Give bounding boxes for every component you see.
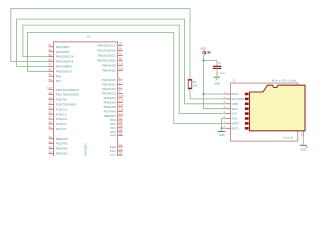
svg-text:0.1uF: 0.1uF (216, 71, 225, 75)
svg-text:PD2/TDI: PD2/TDI (56, 98, 67, 102)
node card pad DAT1 (245, 127, 249, 130)
svg-text:56: 56 (48, 58, 51, 62)
node card pad DAT3/CD (245, 98, 249, 101)
svg-text:45: 45 (119, 132, 122, 136)
wire card pin 8 stub (226, 127, 231, 129)
svg-text:PE1/AN1: PE1/AN1 (56, 142, 68, 146)
wire pin 1 stub right (118, 79, 123, 81)
wire pin 54 stub left (49, 51, 54, 53)
svg-text:126: 126 (119, 99, 124, 103)
svg-text:45: 45 (48, 73, 51, 77)
svg-text:3.3v: 3.3v (205, 50, 211, 54)
svg-text:GND: GND (214, 82, 220, 86)
wire pin 127 stub right (118, 106, 123, 108)
node card pad DAT0 (245, 122, 249, 125)
wire pin 125 stub right (118, 97, 123, 99)
wire pin 18 stub right (118, 150, 123, 152)
svg-text:GND: GND (219, 133, 225, 137)
svg-text:25: 25 (48, 101, 51, 105)
wire pin 15 stub left (49, 138, 54, 140)
svg-text:26: 26 (48, 120, 51, 124)
wire pin 27 stub left (49, 118, 54, 120)
svg-text:122: 122 (119, 112, 124, 116)
svg-text:18: 18 (119, 147, 122, 151)
wire pin 120 stub right (118, 69, 123, 71)
svg-text:DAT3/CD: DAT3/CD (232, 97, 244, 101)
wire net SSI0CLK -> card CLK pin 5 (23, 25, 226, 114)
svg-text:PA7: PA7 (56, 79, 62, 83)
svg-text:PA5/SSI0TX: PA5/SSI0TX (56, 69, 72, 73)
node J1 socket outline (231, 83, 298, 141)
wire pin 44 stub left (49, 80, 54, 82)
svg-text:U1: U1 (87, 35, 91, 39)
svg-text:42: 42 (119, 120, 122, 124)
wire pin 126 stub right (118, 101, 123, 103)
ground GND2 (221, 128, 223, 131)
svg-text:VDD: VDD (232, 107, 238, 111)
wire card VSS pin 6 to ground (222, 119, 226, 129)
svg-text:53: 53 (48, 43, 51, 47)
svg-text:C7: C7 (218, 61, 222, 65)
svg-text:10k: 10k (193, 83, 198, 87)
wire pin 11 stub left (49, 157, 54, 159)
wire VDD rail down to card VDD pin 4 (204, 56, 226, 109)
svg-text:PB0/SSI1CLK: PB0/SSI1CLK (98, 44, 116, 48)
svg-text:120: 120 (119, 67, 124, 71)
wire pin 45 stub left (49, 75, 54, 77)
svg-text:125: 125 (119, 94, 124, 98)
svg-text:PD0/AN15: PD0/AN15 (102, 78, 116, 82)
wire card pin 2 stub (226, 98, 231, 100)
wire card pin 1 stub (226, 93, 231, 95)
svg-text:DAT1: DAT1 (232, 126, 240, 130)
wire pin 22 stub left (49, 108, 54, 110)
node card pad DAT2 (245, 93, 249, 96)
svg-text:PG7: PG7 (110, 153, 116, 156)
wire net SSI0FSS (CS, via R1): IC pin 56 -> resistor -> card DAT3 (11, 9, 190, 80)
svg-text:PC6/C2-: PC6/C2- (56, 122, 67, 126)
wire pin 121 stub right (118, 64, 123, 66)
wire pin 45 stub right (118, 135, 123, 137)
svg-text:127: 127 (119, 103, 124, 107)
wire pin 53 stub left (49, 46, 54, 48)
wire branch to capacitor (204, 60, 218, 65)
svg-text:PE2/AN2: PE2/AN2 (56, 147, 68, 151)
svg-text:Micro-SD-Card: Micro-SD-Card (272, 78, 297, 82)
wire pin 43 stub right (118, 127, 123, 129)
wire pin 19 stub right (118, 146, 123, 148)
svg-text:58: 58 (48, 68, 51, 72)
svg-text:DAT2: DAT2 (232, 92, 240, 96)
svg-text:128: 128 (119, 108, 124, 112)
svg-text:27: 27 (48, 115, 51, 119)
wire card pin 7 stub (226, 122, 231, 124)
wire card DAT1 pin 8 joins (222, 127, 226, 129)
svg-text:PD3/AN12: PD3/AN12 (102, 92, 116, 96)
wire pin 21 stub left (49, 128, 54, 130)
svg-text:55: 55 (48, 53, 51, 57)
svg-text:PD1/AN14: PD1/AN14 (102, 83, 116, 87)
svg-text:41: 41 (119, 116, 122, 120)
ground GND1 below capacitor (214, 76, 220, 78)
wire net CS from resistor bottom to card pin 2 (190, 89, 226, 99)
IC U1 microcontroller body (54, 42, 118, 160)
svg-text:54: 54 (48, 48, 51, 52)
svg-text:PD5/AN6: PD5/AN6 (104, 101, 116, 105)
wire card pin 5 stub (226, 113, 231, 115)
wire pin 96 stub right (118, 49, 123, 51)
ground GND3 (300, 144, 307, 146)
wire pin 92 stub right (118, 59, 123, 61)
svg-text:12: 12 (48, 150, 51, 154)
svg-text:PA2/SSI0CLK: PA2/SSI0CLK (56, 55, 74, 59)
svg-text:PD1/TMS/SWDIO: PD1/TMS/SWDIO (56, 93, 80, 97)
svg-text:20: 20 (48, 91, 51, 95)
svg-text:VSS: VSS (232, 117, 238, 121)
wire pin 91 stub right (118, 54, 123, 56)
wire pin 128 stub right (118, 110, 123, 112)
wire pin 20 stub left (49, 94, 54, 96)
svg-text:LM3S6965: LM3S6965 (83, 144, 87, 157)
svg-text:PF4: PF4 (110, 134, 116, 138)
svg-text:PE0/AN0: PE0/AN0 (56, 137, 68, 141)
svg-text:36: 36 (119, 152, 122, 156)
svg-text:PC7/C0-: PC7/C0- (56, 127, 67, 131)
svg-text:95: 95 (119, 42, 122, 46)
wire pin 13 stub left (49, 148, 54, 150)
svg-text:PA6: PA6 (56, 74, 62, 78)
node card pad CMD (245, 103, 249, 106)
wire pin 110 stub left (49, 89, 54, 91)
wire card pin 9 stub (card detect) (302, 131, 304, 136)
junction dot VDD/DAT2 (202, 93, 204, 95)
node card pad VDD (245, 107, 249, 110)
svg-text:96: 96 (119, 47, 122, 51)
svg-text:PA0/U0RX: PA0/U0RX (56, 45, 70, 49)
svg-text:PD0/TCK/SWCLK: PD0/TCK/SWCLK (56, 88, 79, 92)
svg-text:PB2/I2C0SCL: PB2/I2C0SCL (98, 54, 116, 58)
wire pin 2 stub right (118, 83, 123, 85)
svg-text:21: 21 (48, 125, 51, 129)
svg-text:PD6/AN5: PD6/AN5 (104, 105, 116, 109)
wire pin 56 stub left (49, 61, 54, 63)
wire pin 12 stub left (49, 152, 54, 154)
svg-text:PD2/AN13: PD2/AN13 (102, 87, 116, 91)
node card body (yellow) (250, 85, 306, 131)
svg-text:29: 29 (48, 96, 51, 100)
svg-text:44: 44 (48, 77, 51, 81)
svg-text:Card-D: Card-D (283, 135, 293, 139)
svg-text:PE3/AN3: PE3/AN3 (56, 152, 68, 156)
svg-text:PD3/TDO/SWO: PD3/TDO/SWO (56, 103, 77, 107)
wire pin 3 stub right (118, 88, 123, 90)
svg-text:14: 14 (48, 140, 51, 144)
svg-text:PA3/SSI0FSS: PA3/SSI0FSS (56, 60, 74, 64)
svg-text:13: 13 (48, 145, 51, 149)
wire pin 25 stub left (49, 103, 54, 105)
svg-text:CLK: CLK (232, 112, 238, 116)
svg-text:PB1/SSI1FSS: PB1/SSI1FSS (98, 49, 116, 53)
svg-text:11: 11 (49, 155, 52, 156)
svg-text:J1: J1 (233, 79, 236, 83)
wire pin 26 stub left (49, 123, 54, 125)
svg-text:DAT0: DAT0 (232, 122, 240, 126)
svg-text:PA4/SSI0RX: PA4/SSI0RX (56, 65, 72, 69)
svg-text:44: 44 (119, 128, 122, 132)
wire card pin 3 stub (226, 103, 231, 105)
svg-text:57: 57 (48, 63, 51, 67)
svg-text:91: 91 (119, 52, 122, 56)
svg-text:PC3/C1+: PC3/C1+ (56, 107, 68, 111)
power supply symbol 3.3v arrow (202, 51, 206, 55)
resistor R1 (188, 80, 192, 89)
wire pin 23 stub left (49, 113, 54, 115)
wire pin 4 stub right (118, 92, 123, 94)
wire pin 14 stub left (49, 143, 54, 145)
svg-text:CMD: CMD (232, 102, 239, 106)
svg-text:PA1/U0TX: PA1/U0TX (56, 50, 70, 54)
svg-text:PD7/AN4: PD7/AN4 (104, 110, 116, 114)
svg-text:15: 15 (48, 135, 51, 139)
svg-text:PB3/I2C0SDA: PB3/I2C0SDA (97, 59, 115, 63)
svg-text:121: 121 (119, 62, 124, 66)
svg-text:PC5/C2+: PC5/C2+ (56, 117, 68, 121)
wire cap bottom to GND (216, 68, 218, 76)
wire net SSI0TX -> card DAT0 pin 7 (27, 32, 225, 123)
wire pin 95 stub right (118, 44, 123, 46)
wire pin 44 stub right (118, 131, 123, 133)
wire pin 9 to ground (302, 136, 304, 145)
wire pin 57 stub left (49, 65, 54, 67)
wire VDD to card DAT2 pin 1 (204, 93, 226, 95)
svg-text:110: 110 (47, 86, 52, 90)
wire pin 42 stub right (118, 123, 123, 125)
node card pad VSS (245, 117, 249, 120)
svg-text:PD4/AN7: PD4/AN7 (104, 96, 116, 100)
node card pad CLK (245, 112, 249, 115)
wire pin 41 stub right (118, 119, 123, 121)
svg-text:9: 9 (301, 133, 303, 137)
svg-text:PB4/AN10: PB4/AN10 (102, 64, 116, 68)
svg-text:43: 43 (119, 124, 122, 128)
svg-text:PC4/C1-: PC4/C1- (56, 112, 67, 116)
wire pin 55 stub left (49, 56, 54, 58)
svg-text:GND: GND (300, 148, 306, 152)
wire pin 122 stub right (118, 115, 123, 117)
wire pin 58 stub left (49, 70, 54, 72)
svg-text:22: 22 (48, 106, 51, 110)
svg-text:23: 23 (48, 111, 51, 115)
svg-text:PB5/AN11: PB5/AN11 (102, 69, 116, 73)
wire pin 29 stub left (49, 99, 54, 101)
wire net SSI0RX -> card CMD pin 3 (17, 19, 226, 104)
svg-text:19: 19 (119, 143, 122, 147)
junction dot VDD/cap branch (202, 59, 204, 61)
wire pin 36 stub right (118, 154, 123, 156)
svg-text:92: 92 (119, 57, 122, 61)
wire card pin 4 stub (226, 108, 231, 110)
junction dot DAT1/GND (220, 127, 222, 129)
wire card pin 6 stub (226, 118, 231, 120)
capacitor C7 plates (213, 65, 221, 67)
